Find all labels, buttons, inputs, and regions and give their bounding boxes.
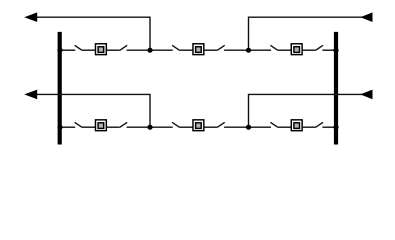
wire W3b (278, 49, 292, 51)
wire W2d (224, 49, 248, 51)
breaker CB3 (291, 44, 302, 55)
breaker CB1 (95, 44, 106, 55)
arrowhead F3 (24, 90, 37, 100)
arrowhead F1 (24, 12, 37, 22)
node dot lower busbar B2 (333, 125, 338, 130)
bay 5 lower (node N3 to node N4) (150, 120, 249, 131)
wire W6d (322, 126, 336, 128)
disconnector S2a blade (172, 45, 179, 50)
bay 4 lower (busbar B1 to node N3) (60, 120, 150, 131)
disconnector S4a blade (75, 122, 82, 127)
disconnector S1a blade (75, 45, 82, 50)
wire W2c (203, 49, 217, 51)
breaker CB4 (95, 120, 106, 131)
wire W4d (127, 126, 150, 128)
wire W5d (224, 126, 248, 128)
node dot upper busbar B1 (57, 48, 62, 53)
node dot N1 (147, 48, 152, 53)
disconnector S3a blade (270, 45, 277, 50)
bay 1 upper (busbar B1 to node N1) (60, 44, 150, 55)
wire W3a (249, 49, 272, 51)
wire W5c (203, 126, 217, 128)
node dot upper busbar B2 (333, 48, 338, 53)
wire W4c (106, 126, 120, 128)
feeder line F2 (top-right) (249, 17, 363, 50)
node dot lower busbar B1 (57, 125, 62, 130)
disconnector S2b blade (217, 45, 224, 50)
node dot N3 (147, 125, 152, 130)
feeder line F1 (top-left) (27, 17, 150, 50)
wire W5b (180, 126, 194, 128)
disconnector S5a blade (172, 122, 179, 127)
wire W3c (302, 49, 316, 51)
wire W3d (322, 49, 336, 51)
disconnector S6a blade (270, 122, 277, 127)
wire W6a (249, 126, 272, 128)
bay 6 lower (node N4 to busbar B2) (249, 120, 337, 131)
feeder line F4 (bottom-right) (249, 94, 363, 127)
disconnector S5b blade (217, 122, 224, 127)
wire W6c (302, 126, 316, 128)
breaker CB5 (193, 120, 204, 131)
disconnector S6b blade (316, 122, 323, 127)
wire W1c (106, 49, 120, 51)
node dot N2 (246, 48, 251, 53)
wire W1a (60, 49, 75, 51)
bay 2 upper (node N1 to node N2) (150, 44, 249, 55)
wire W4b (82, 126, 96, 128)
disconnector S1b blade (120, 45, 127, 50)
wire W1d (127, 49, 150, 51)
disconnector S3b blade (316, 45, 323, 50)
busbar B1 (left) (58, 32, 62, 145)
node dot N4 (246, 125, 251, 130)
bay 3 upper (node N2 to busbar B2) (249, 44, 337, 55)
arrowhead F4 (360, 90, 372, 100)
wire W6b (278, 126, 292, 128)
disconnector S4b blade (120, 122, 127, 127)
arrowhead F2 (360, 12, 372, 22)
breaker CB6 (291, 120, 302, 131)
wire W4a (60, 126, 75, 128)
wire W1b (82, 49, 96, 51)
wire W2a (150, 49, 173, 51)
feeder line F3 (bottom-left) (27, 94, 150, 127)
wire W2b (180, 49, 194, 51)
breaker CB2 (193, 44, 204, 55)
wire W5a (150, 126, 173, 128)
busbar B2 (right) (334, 32, 338, 145)
